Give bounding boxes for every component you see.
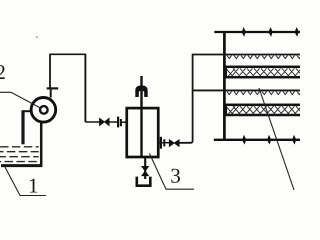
drain valve V3 (142, 166, 149, 175)
nozzle on top pipe (295, 27, 299, 37)
distributor pipe A (192, 54, 301, 56)
dip tube into tank (21, 110, 24, 144)
packing bar B2 (226, 105, 303, 115)
stirrer shaft (140, 76, 142, 156)
distributor pipe D (192, 89, 301, 91)
nozzle on bottom pipe (242, 135, 246, 145)
hatch in bar B1 (226, 68, 301, 77)
label 3 (171, 169, 180, 183)
tank 1 liquid dashes (0, 147, 39, 162)
wire valve V2 to riser (179, 55, 193, 143)
motor M on vessel 3 (135, 85, 147, 97)
spray teeth under pipe A (227, 55, 302, 58)
bottom pipe of unit 4 (214, 139, 301, 141)
pump P inner circle (40, 106, 48, 114)
top pipe of unit 4 (214, 31, 301, 33)
nozzle on top pipe (242, 27, 246, 37)
collection cup (137, 177, 151, 186)
nozzle on top pipe (269, 27, 273, 37)
label 2 (0, 65, 5, 79)
speck (36, 36, 38, 38)
nozzle on bottom pipe (292, 135, 296, 145)
right flange F2 on vessel 3 (160, 137, 162, 149)
pump discharge flange (47, 87, 59, 89)
header pipe of unit 4 (223, 32, 226, 141)
leader line label 2 (0, 92, 41, 108)
wire suction pipe pump (23, 110, 31, 112)
leader line label 1 (5, 167, 46, 196)
label 1 (30, 179, 37, 193)
flange F1 at vessel left (117, 117, 119, 128)
wire down pipe to valve (84, 54, 86, 122)
pump P outer circle (31, 98, 56, 123)
wire riser from pump (49, 55, 51, 88)
wire valve V1 to flange (109, 121, 118, 123)
valve V2 (169, 140, 179, 147)
drain pipe under vessel 3 (144, 158, 146, 179)
hatch in bar B2 (226, 106, 301, 115)
packing bar B1 (226, 67, 303, 77)
leader line label 4 (259, 88, 294, 190)
valve V1 (100, 118, 110, 125)
leader line label 3 (150, 154, 195, 190)
tank 1 right wall (40, 123, 43, 167)
vessel 3 body (127, 108, 159, 157)
wire elbow to valve V1 (85, 121, 99, 123)
tank 1 bottom (1, 164, 42, 167)
spray teeth under pipe D (227, 91, 302, 94)
nozzle on bottom pipe (267, 135, 271, 145)
pump discharge pipe (50, 90, 52, 98)
wire top pipe (49, 53, 85, 55)
